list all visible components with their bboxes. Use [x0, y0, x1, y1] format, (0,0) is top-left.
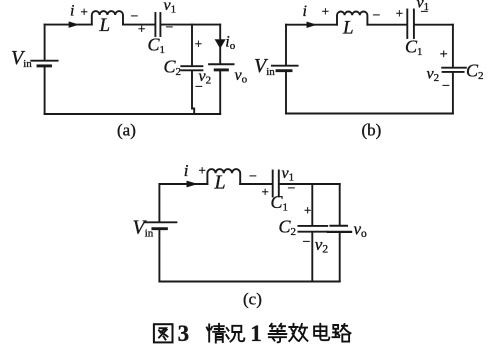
circuit (b): [272, 10, 466, 114]
battery Vin (c) short plate: [153, 227, 167, 230]
svg-text:+: +: [322, 3, 329, 18]
battery vo (c) top plate: [330, 225, 347, 227]
svg-text:+: +: [396, 6, 403, 21]
svg-text:+: +: [440, 47, 448, 62]
arrowhead io (a): [215, 40, 225, 48]
svg-text:L: L: [342, 18, 354, 39]
battery Vin (b) long plate: [272, 65, 298, 67]
wire: (c) C2 branch upper vertical: [311, 184, 313, 225]
svg-text:(a): (a): [117, 121, 136, 140]
wire: (b) right branch vertical above C2: [452, 25, 454, 67]
capacitor C1 (a) left plate: [154, 13, 156, 36]
svg-text:−: −: [249, 170, 257, 185]
wire: (a) top rail after C1 to right corner: [161, 24, 220, 26]
arrowhead current i (a): [69, 22, 78, 27]
wire: (c) C2 branch lower vertical: [311, 233, 313, 282]
svg-text:−: −: [442, 79, 450, 94]
svg-text:+: +: [304, 203, 311, 218]
wire: (b) left branch vertical below battery: [285, 72, 287, 114]
wire: (c) bottom rail: [159, 281, 339, 283]
caption char 效: [289, 324, 307, 341]
wire: (a) top rail after inductor to C1: [123, 24, 155, 26]
circuit (c): [145, 169, 351, 281]
svg-text:−: −: [195, 80, 203, 95]
capacitor C1 (a) right plate: [159, 13, 161, 36]
labels circuit (a): [11, 0, 248, 140]
capacitor C1 (b) left plate: [406, 10, 408, 39]
inductor L (a) coil: [92, 11, 123, 25]
wire: (c) top rail left segment: [159, 183, 207, 185]
arrowhead current i (b): [307, 22, 316, 27]
wire: (b) bottom rail: [286, 113, 453, 115]
svg-text:−: −: [421, 5, 429, 20]
caption char 图: [154, 324, 173, 342]
battery Vin (c) long plate: [145, 221, 176, 223]
wire: (b) top rail after C1 to right corner: [415, 24, 453, 26]
caption char 等: [269, 324, 287, 343]
battery vo (a) short plate: [215, 68, 227, 71]
svg-text:−: −: [166, 20, 174, 35]
svg-text:−: −: [303, 235, 311, 250]
wire: (b) top rail left segment: [286, 24, 337, 26]
arrowhead current i (c): [187, 181, 197, 187]
wire: (c) vo branch upper vertical: [339, 184, 341, 225]
svg-text:+: +: [81, 4, 88, 19]
labels circuit (b): [254, 0, 484, 140]
battery Vin (a) long plate: [31, 60, 57, 62]
capacitor C2 (a) top plate: [181, 65, 202, 67]
capacitor C2 (b) bottom plate: [443, 71, 464, 73]
wire: (a) vo branch lower vertical: [219, 71, 221, 114]
svg-text:3: 3: [178, 321, 190, 346]
svg-text:−: −: [288, 182, 296, 197]
battery vo (c) long bottom plate: [328, 231, 351, 233]
svg-text:+: +: [138, 21, 145, 36]
svg-text:i: i: [184, 161, 189, 180]
wire: (a) vo branch upper vertical: [219, 25, 221, 64]
caption char 路: [333, 324, 351, 342]
wire: (c) left branch vertical below battery: [158, 230, 160, 282]
wire: (a) left branch vertical below battery: [44, 67, 46, 114]
wire: (a) bottom rail: [45, 113, 221, 115]
svg-text:L: L: [214, 172, 226, 194]
svg-text:+: +: [262, 184, 269, 199]
labels circuit (c): [133, 161, 368, 309]
capacitor C2 (c) top plate: [298, 225, 327, 227]
wire: (a) top rail left segment: [45, 24, 92, 26]
wire: (a) C2 branch upper vertical: [191, 25, 193, 66]
wire: (b) left branch vertical above battery: [285, 25, 287, 65]
wire: (b) top rail after inductor to C1: [367, 24, 406, 26]
svg-text:i: i: [70, 2, 74, 19]
svg-text:+: +: [195, 36, 202, 51]
capacitor C1 (b) right plate: [413, 10, 415, 39]
svg-text:+: +: [199, 163, 206, 178]
capacitor C2 (a) bottom plate: [181, 69, 202, 71]
wire: (b) right branch vertical below C2: [452, 73, 454, 114]
caption char 情: [207, 324, 225, 343]
wire: (c) top rail after inductor to C1: [240, 183, 272, 185]
svg-text:i: i: [303, 3, 307, 20]
svg-text:(b): (b): [362, 121, 382, 140]
wire: (c) left branch vertical above battery: [158, 184, 160, 222]
caption char 况: [226, 326, 244, 342]
caption: 图 3 情况 1 等效电路: [154, 321, 351, 346]
capacitor C1 (c) right plate: [278, 171, 280, 197]
wire: (a) left branch vertical above battery: [44, 25, 46, 60]
capacitor C1 (c) left plate: [272, 171, 274, 197]
svg-text:1: 1: [250, 321, 262, 346]
inductor L (c) coil: [207, 169, 240, 184]
svg-text:L: L: [99, 15, 111, 36]
battery Vin (a) short plate: [38, 64, 51, 67]
svg-text:−: −: [373, 9, 381, 24]
wire: (a) C2 branch lower vertical with jog: [192, 71, 194, 114]
wire: (c) vo branch lower vertical: [339, 233, 341, 282]
inductor L (b) coil: [337, 11, 367, 24]
battery vo (a) long plate: [209, 63, 233, 65]
svg-text:(c): (c): [243, 290, 262, 309]
circuit (a): [31, 11, 233, 114]
capacitor C2 (b) top plate: [442, 67, 466, 69]
capacitor C2 (c) bottom plate: [298, 231, 327, 233]
wire: (c) top rail after C1 to right corner: [280, 183, 340, 185]
battery Vin (b) short plate: [277, 69, 291, 72]
caption char 电: [314, 324, 329, 340]
